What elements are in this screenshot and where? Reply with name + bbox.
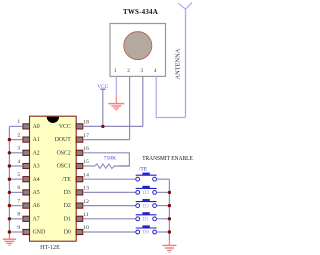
wire DOUT pin17 net xyxy=(83,139,130,141)
antenna mast xyxy=(185,9,187,117)
switch S5 D0 left contact xyxy=(136,230,140,234)
switch S1 /TE button cap xyxy=(142,173,149,175)
junction dot bus row 9 xyxy=(8,230,11,233)
svg-text:D3: D3 xyxy=(64,190,71,196)
svg-text:8: 8 xyxy=(17,212,20,218)
svg-text:10: 10 xyxy=(83,225,89,231)
svg-text:D2: D2 xyxy=(143,203,150,209)
svg-text:A2: A2 xyxy=(33,150,40,156)
switch S4 D1 wire from pin xyxy=(83,218,136,220)
svg-text:A6: A6 xyxy=(33,203,40,209)
switch S3 D2 wire from pin xyxy=(83,205,136,207)
pin 2 stub (A1) xyxy=(23,137,30,142)
switch S2 D3 wire from pin xyxy=(83,191,136,193)
switch S2 D3 bridge bar xyxy=(136,187,157,189)
svg-text:6: 6 xyxy=(17,185,20,191)
switch S5 D0 right contact xyxy=(153,230,157,234)
svg-text:16: 16 xyxy=(83,146,89,152)
wire switch S2 to enable bus xyxy=(157,191,170,193)
wire TWS pin4 to antenna xyxy=(156,76,185,117)
wire resistor to OSC loop corner xyxy=(114,165,130,167)
svg-text:A4: A4 xyxy=(33,177,40,183)
pin 17 stub (DOUT) xyxy=(76,137,83,142)
address bus vertical wire xyxy=(8,126,10,232)
junction dot bus row 3 xyxy=(8,151,11,154)
antenna V arms xyxy=(178,3,192,10)
wire A2 pin3 to bus xyxy=(9,152,23,154)
switch S3 D2 button cap xyxy=(142,199,149,201)
pin 6 stub (A5) xyxy=(23,190,30,195)
wire A7 pin8 to bus xyxy=(9,218,23,220)
switch S1 /TE wire from pin xyxy=(83,178,136,180)
resistor R1 750K zigzag xyxy=(94,164,114,168)
svg-text:4: 4 xyxy=(17,159,20,165)
switch S5 D0 bridge bar xyxy=(136,227,157,229)
switch S3 D2 left contact xyxy=(136,204,140,208)
wire VCC pin18 net xyxy=(83,125,143,127)
wire switch S3 to enable bus xyxy=(157,205,170,207)
junction dot bus row 5 xyxy=(8,178,11,181)
junction dot enable bus D0 xyxy=(168,230,171,233)
pin 15 stub (OSC1) xyxy=(76,163,83,168)
switch S1 /TE right contact xyxy=(153,177,157,181)
pin 13 stub (D3) xyxy=(76,190,83,195)
svg-text:9: 9 xyxy=(17,225,20,231)
svg-text:A1: A1 xyxy=(33,137,40,143)
ground at enable bus xyxy=(162,240,176,252)
svg-text:/TE: /TE xyxy=(139,167,148,173)
switch S4 D1 button cap xyxy=(142,212,149,214)
wire A0 pin1 to bus xyxy=(9,125,23,127)
svg-text:D2: D2 xyxy=(64,203,71,209)
pin 4 stub (A3) xyxy=(23,163,30,168)
switch S5 D0 button cap xyxy=(142,225,149,227)
junction dot enable bus D1 xyxy=(168,217,171,220)
switch S2 D3 right contact xyxy=(153,191,157,195)
pin 5 stub (A4) xyxy=(23,177,30,182)
wire TWS pin1 to ground xyxy=(115,76,117,96)
wire switch S1 to enable bus xyxy=(157,178,170,180)
wire switch S4 to enable bus xyxy=(157,218,170,220)
junction dot enable bus D2 xyxy=(168,204,171,207)
svg-text:7: 7 xyxy=(17,198,20,204)
svg-text:18: 18 xyxy=(83,120,89,126)
junction dot bus row 8 xyxy=(8,217,11,220)
svg-text:A3: A3 xyxy=(33,164,40,170)
junction dot bus row 6 xyxy=(8,191,11,194)
switch S1 /TE bridge bar xyxy=(136,174,157,176)
switch S2 D3 button cap xyxy=(142,186,149,188)
pin 14 stub (/TE) xyxy=(76,177,83,182)
svg-text:2: 2 xyxy=(127,68,130,74)
enable bus vertical wire xyxy=(168,179,170,240)
svg-text:D3: D3 xyxy=(143,190,150,196)
svg-text:3: 3 xyxy=(140,68,143,74)
pin 7 stub (A6) xyxy=(23,203,30,208)
pin 3 stub (A2) xyxy=(23,150,30,155)
svg-text:ANTENNA: ANTENNA xyxy=(175,48,182,79)
wire OSC2 pin16 net xyxy=(83,153,130,166)
svg-text:17: 17 xyxy=(83,133,89,139)
wire TWS pin3 down to VCC net xyxy=(142,76,144,126)
svg-text:TWS-434A: TWS-434A xyxy=(123,8,158,16)
svg-text:13: 13 xyxy=(83,186,89,192)
pin 1 stub (A0) xyxy=(23,124,30,129)
wire OSC1 pin15 to resistor xyxy=(83,165,95,167)
TWS-434A metal can circle xyxy=(124,32,152,60)
svg-text:DOUT: DOUT xyxy=(55,137,72,143)
switch S4 D1 left contact xyxy=(136,217,140,221)
svg-text:D1: D1 xyxy=(143,217,150,223)
HT-12E notch xyxy=(47,117,59,123)
svg-text:VCC: VCC xyxy=(97,84,108,90)
svg-text:11: 11 xyxy=(83,212,89,218)
wire GND pin9 to bus xyxy=(9,231,23,233)
switch S2 D3 left contact xyxy=(136,191,140,195)
svg-text:2: 2 xyxy=(17,132,20,138)
junction dot bus row 2 xyxy=(8,138,11,141)
pin 9 stub (GND) xyxy=(23,229,30,234)
switch S4 D1 right contact xyxy=(153,217,157,221)
svg-text:1: 1 xyxy=(114,68,117,74)
wire A3 pin4 to bus xyxy=(9,165,23,167)
pin 10 stub (D0) xyxy=(76,229,83,234)
switch S3 D2 right contact xyxy=(153,204,157,208)
svg-text:VCC: VCC xyxy=(59,124,71,130)
wire switch S5 to enable bus xyxy=(157,231,170,233)
svg-text:GND: GND xyxy=(33,230,46,236)
wire A4 pin5 to bus xyxy=(9,178,23,180)
junction dot bus row 4 xyxy=(8,164,11,167)
svg-text:/TE: /TE xyxy=(62,177,71,183)
svg-text:14: 14 xyxy=(83,172,89,178)
wire A1 pin2 to bus xyxy=(9,139,23,141)
pin 11 stub (D1) xyxy=(76,216,83,221)
svg-text:D1: D1 xyxy=(64,216,71,222)
svg-text:D0: D0 xyxy=(143,230,150,236)
pin 18 stub (VCC) xyxy=(76,124,83,129)
svg-text:12: 12 xyxy=(83,199,89,205)
ground at bus bottom xyxy=(3,232,16,245)
svg-text:15: 15 xyxy=(83,159,89,165)
svg-text:3: 3 xyxy=(17,146,20,152)
svg-text:1: 1 xyxy=(17,119,20,125)
encoder U1 HT-12E body xyxy=(30,116,77,241)
svg-text:OSC2: OSC2 xyxy=(57,150,71,156)
svg-text:750K: 750K xyxy=(104,156,116,162)
svg-text:5: 5 xyxy=(17,172,20,178)
ground at TWS pin1 xyxy=(108,96,124,110)
wire A5 pin6 to bus xyxy=(9,191,23,193)
svg-text:TRANSMIT ENABLE: TRANSMIT ENABLE xyxy=(142,156,193,162)
svg-text:A7: A7 xyxy=(33,216,40,222)
wire A6 pin7 to bus xyxy=(9,205,23,207)
wire TWS pin2 data down to DOUT net xyxy=(129,76,131,139)
svg-text:4: 4 xyxy=(154,68,157,74)
pin 8 stub (A7) xyxy=(23,216,30,221)
svg-text:D0: D0 xyxy=(64,230,71,236)
switch S5 D0 wire from pin xyxy=(83,231,136,233)
junction dot bus row 7 xyxy=(8,204,11,207)
transmitter U2 TWS-434A body xyxy=(110,24,166,77)
VCC power symbol xyxy=(97,84,108,126)
switch S3 D2 bridge bar xyxy=(136,201,157,203)
switch S4 D1 bridge bar xyxy=(136,214,157,216)
junction dot enable bus D3 xyxy=(168,191,171,194)
junction dot VCC net xyxy=(101,125,104,128)
svg-text:HT-12E: HT-12E xyxy=(40,244,60,251)
switch S1 /TE left contact xyxy=(136,177,140,181)
pin 16 stub (OSC2) xyxy=(76,150,83,155)
svg-text:A0: A0 xyxy=(33,124,40,130)
svg-text:A5: A5 xyxy=(33,190,40,196)
svg-text:OSC1: OSC1 xyxy=(57,164,71,170)
pin 12 stub (D2) xyxy=(76,203,83,208)
